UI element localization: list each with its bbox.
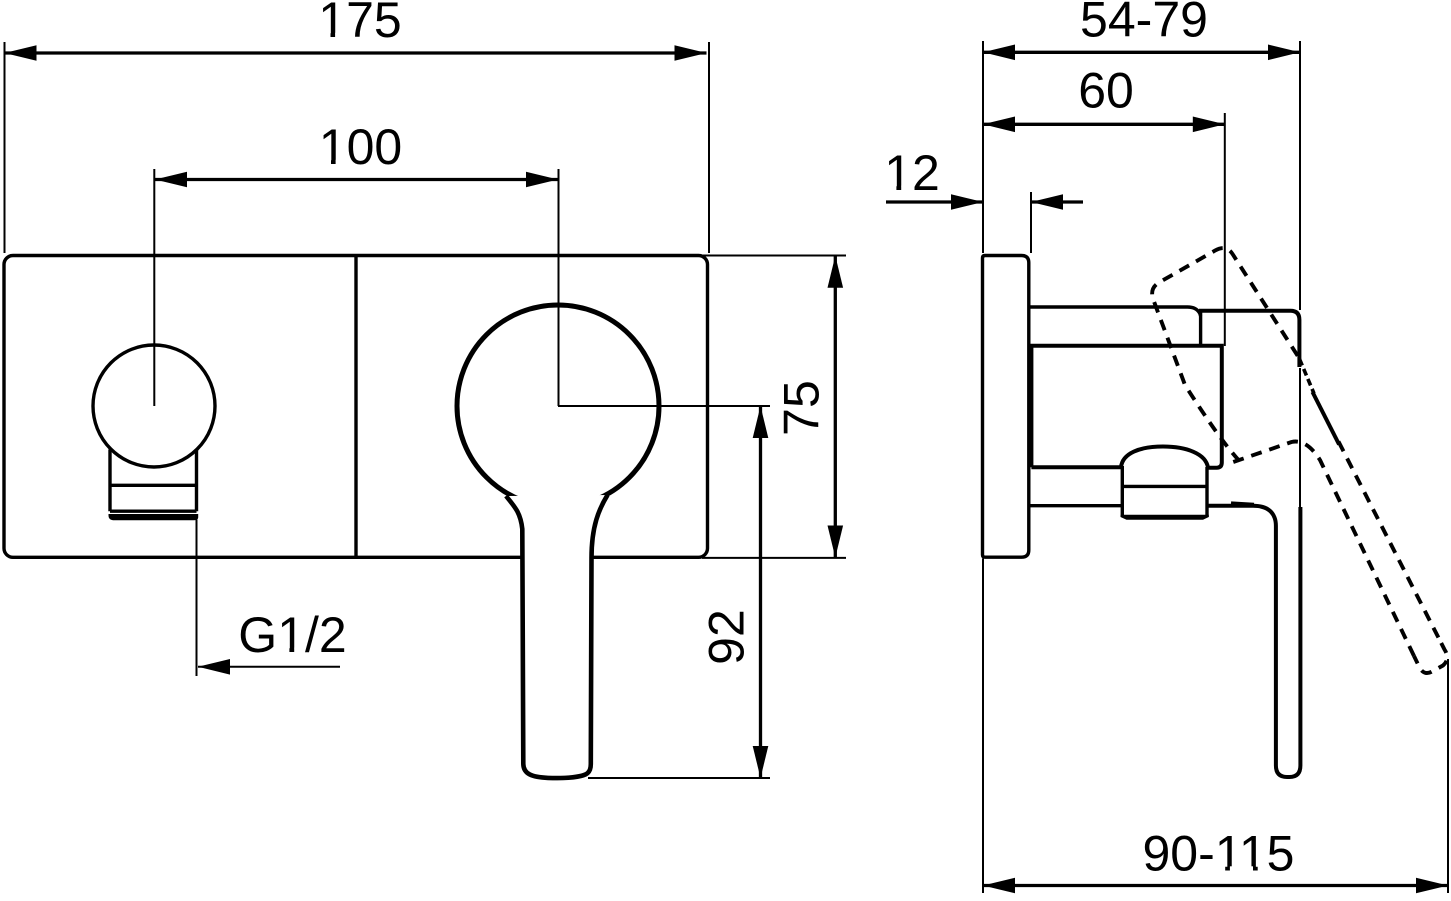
svg-text:75: 75 (774, 380, 830, 436)
dim 175 arrowhead right (675, 45, 707, 61)
dim 60 extension line right (1224, 113, 1226, 346)
spout body (110, 450, 197, 512)
spout escutcheon circle (93, 345, 215, 467)
dim 75 arrowhead top (828, 256, 844, 288)
dim 90-115 extension line left (982, 559, 984, 894)
dim 75 extension line bottom (702, 557, 846, 559)
spout bottom cap (109, 514, 199, 520)
plate divider line (354, 256, 357, 558)
svg-text:12: 12 (884, 145, 940, 201)
dim 92 arrowhead top (753, 406, 769, 438)
cartridge dome (1121, 447, 1208, 468)
dim 54-79 extension line left (982, 41, 984, 253)
dim 92 extension line bottom (lever tip line) (588, 777, 770, 779)
dim 100 extension/center line left circle (153, 169, 155, 406)
dim 100 dimension line (155, 178, 558, 181)
open handle heel dash (1231, 504, 1254, 505)
dim 90-115 arrowhead left (983, 878, 1015, 894)
dim 75 arrowhead bottom (828, 526, 844, 558)
svg-text:175: 175 (318, 0, 401, 48)
handle top arm (1199, 311, 1299, 367)
svg-text:90-115: 90-115 (1143, 826, 1295, 882)
dim 54-79 extension line right upper (1299, 41, 1301, 310)
dim 12 tail line right (1031, 200, 1083, 203)
open-position handle (dashed): neck (1152, 248, 1298, 461)
dim 175 extension line right (708, 42, 710, 253)
dim 75 dimension line (834, 256, 837, 557)
dim 92 dimension line (759, 406, 762, 778)
dim 54-79 extension line right lower (1299, 368, 1301, 508)
valve body (1031, 346, 1221, 468)
upper pipe (1029, 307, 1201, 316)
dim 175 extension line left (4, 42, 6, 253)
G1/2 leader arrowhead (198, 659, 230, 675)
open handle right edge near pivot (dense dash + solid silhouette) (1300, 359, 1315, 394)
dim 60 arrowhead left (983, 117, 1015, 133)
dim 54-79 arrowhead left (983, 45, 1015, 61)
dim 12 extension line right (1030, 192, 1032, 253)
dim 54-79 dimension line (983, 51, 1300, 54)
dim 100 extension/center line right circle (558, 169, 560, 406)
solid lever: connect + grip (1207, 506, 1300, 777)
dim 12 arrowhead left (points right) (951, 194, 983, 210)
pipe end step (1199, 312, 1202, 346)
dim 175 arrowhead left (5, 45, 37, 61)
dim 92 arrowhead bottom (753, 746, 769, 778)
G1/2 leader extension line vertical (196, 520, 198, 677)
handle lever stem (white fill hides circle bottom arc) (506, 495, 608, 778)
dim 12 arrowhead right (points left) (1031, 194, 1063, 210)
lower pipe (1029, 504, 1122, 507)
dim 60 dimension line (983, 123, 1225, 126)
wall plate front (4, 256, 708, 558)
open handle grip dashed end cap (1414, 643, 1447, 673)
svg-text:G1/2: G1/2 (238, 607, 346, 663)
open handle grip dashed left edge (1226, 442, 1414, 656)
svg-text:60: 60 (1078, 63, 1134, 119)
dim 92 extension line top (handle center line) (558, 405, 770, 407)
font tweak: hide Liberation "1" foot bars to match target glyphs (281, 33, 1268, 872)
svg-text:54-79: 54-79 (1080, 0, 1208, 48)
dim 12 tail line left (886, 200, 983, 203)
dim 54-79 arrowhead right (1268, 45, 1300, 61)
dim 90-115 extension line right (1447, 659, 1449, 893)
dim 90-115 arrowhead right (1416, 878, 1448, 894)
G1/2 leader line horizontal (198, 666, 340, 668)
wall plate side (983, 256, 1029, 558)
cap bottom thick (1121, 515, 1209, 520)
cartridge cap (1122, 466, 1207, 517)
dim 100 arrowhead left (155, 172, 187, 188)
dim 90-115 dimension line (983, 884, 1448, 887)
handle escutcheon circle (457, 305, 659, 507)
dim 100 arrowhead right (526, 172, 558, 188)
dim 60 arrowhead right (1193, 117, 1225, 133)
open-position handle (dashed): grip (1339, 442, 1442, 644)
svg-text:92: 92 (699, 609, 755, 665)
dim 175 dimension line (5, 51, 707, 54)
svg-text:100: 100 (319, 119, 402, 175)
dim 75 extension line top (702, 255, 846, 257)
